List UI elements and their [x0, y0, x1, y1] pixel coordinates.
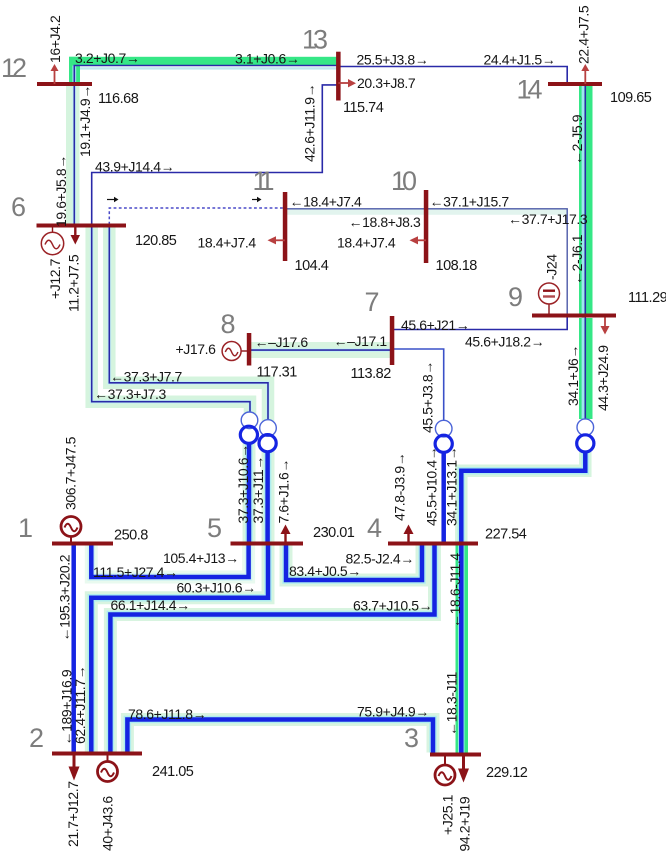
svg-text:←2-J6.1: ←2-J6.1 — [569, 234, 585, 285]
svg-text:18.4+J7.4: 18.4+J7.4 — [198, 235, 257, 251]
wire transformer path P1 bus6 side — [92, 226, 250, 413]
bus 11 bar — [283, 192, 288, 261]
svg-text:45.6+J18.2→: 45.6+J18.2→ — [465, 334, 544, 350]
flow arrow line 6-11 near bus 11 — [252, 197, 262, 202]
bus 7 bar — [390, 316, 395, 365]
wire band line 1-5 cyan — [91, 546, 248, 578]
wire line 13-14 — [338, 67, 567, 84]
svg-text:13: 13 — [302, 25, 327, 55]
svg-text:22.4+J7.5: 22.4+J7.5 — [576, 5, 592, 64]
load arrow bus 11 — [268, 236, 285, 244]
wire line 7-8 — [250, 348, 391, 352]
wire transformer T1 bus5 side — [245, 442, 253, 544]
svg-text:108.18: 108.18 — [436, 258, 478, 274]
load arrow bus 14 — [581, 64, 589, 84]
bus 2 bar — [52, 752, 142, 756]
bus 3 bar — [430, 753, 481, 757]
svg-text:306.7+J47.5: 306.7+J47.5 — [63, 436, 79, 510]
svg-text:78.6+J11.8→: 78.6+J11.8→ — [128, 706, 206, 722]
wire line 2-3 — [127, 720, 433, 753]
wire band line 6-12 mint — [66, 86, 80, 225]
transformer T4 (4-9) — [577, 419, 594, 452]
svg-text:18.4+J7.4: 18.4+J7.4 — [337, 235, 396, 251]
svg-text:3.2+J0.7→: 3.2+J0.7→ — [75, 50, 140, 66]
wire line 12-13 — [72, 66, 76, 85]
svg-text:47.8-J3.9→: 47.8-J3.9→ — [392, 453, 408, 521]
generator G8 at bus 8 (condenser) — [222, 342, 247, 361]
svg-text:62.4+J11.7→: 62.4+J11.7→ — [72, 666, 88, 744]
svg-text:120.85: 120.85 — [135, 233, 177, 249]
svg-text:227.54: 227.54 — [485, 527, 527, 543]
svg-text:←37.7+J17.3: ←37.7+J17.3 — [508, 211, 588, 227]
svg-text:19.1+J4.9→: 19.1+J4.9→ — [77, 85, 93, 157]
svg-text:241.05: 241.05 — [152, 764, 194, 780]
svg-text:104.4: 104.4 — [295, 258, 329, 274]
svg-text:+J17.6: +J17.6 — [176, 341, 217, 357]
wire band line 3-4 green — [456, 546, 469, 753]
transformer T2 (5-6 b) — [259, 420, 276, 452]
svg-text:+J25.1: +J25.1 — [440, 794, 456, 835]
wire band line 2-3 cyan — [127, 720, 433, 753]
svg-text:43.9+J14.4→: 43.9+J14.4→ — [95, 159, 174, 175]
generator G3 at bus 3 — [435, 757, 455, 786]
wire line 10-11 — [285, 208, 426, 210]
svg-text:16+J4.2: 16+J4.2 — [47, 15, 63, 63]
svg-text:44.3+J24.9: 44.3+J24.9 — [595, 345, 611, 411]
condenser C9 at bus 9 — [539, 283, 560, 314]
wire line 4-5 — [286, 546, 422, 581]
transformer T1 (5-6 a) — [240, 412, 258, 443]
svg-text:←–J17.1: ←–J17.1 — [334, 333, 388, 349]
svg-text:←–J17.6: ←–J17.6 — [255, 334, 309, 350]
svg-text:←37.3+J7.7: ←37.3+J7.7 — [110, 369, 182, 385]
svg-text:←18.6-J11.4: ←18.6-J11.4 — [447, 553, 463, 628]
svg-text:75.9+J4.9→: 75.9+J4.9→ — [357, 704, 429, 720]
wire band transformer path P1 5-6 mint — [92, 226, 250, 414]
load arrow bus 6 — [71, 228, 81, 245]
svg-text:63.7+J10.5→: 63.7+J10.5→ — [353, 598, 432, 614]
svg-text:111.29: 111.29 — [628, 290, 666, 306]
svg-text:109.65: 109.65 — [610, 90, 652, 106]
svg-text:117.31: 117.31 — [257, 365, 298, 381]
wire band line 12-13 green — [69, 57, 338, 84]
wire line 2-5 — [91, 546, 268, 752]
load arrow bus 2 — [69, 756, 80, 781]
wire band transformer T1 lower cyan — [243, 443, 256, 543]
wire line 1-5 — [91, 546, 248, 578]
svg-text:42.6+J11.9→: 42.6+J11.9→ — [302, 84, 318, 162]
svg-text:←37.1+J15.7: ←37.1+J15.7 — [430, 194, 510, 210]
svg-text:←37.3+J7.3: ←37.3+J7.3 — [94, 386, 166, 402]
bus 10 bar — [424, 190, 429, 263]
load arrow bus 12 — [51, 64, 59, 84]
svg-text:34.1+J6→: 34.1+J6→ — [565, 345, 581, 406]
svg-text:45.5+J3.8→: 45.5+J3.8→ — [420, 361, 436, 433]
wire line 2-4 — [110, 546, 434, 752]
bus 12 bar — [37, 82, 92, 86]
wire line 9-10 — [426, 209, 567, 314]
svg-text:24.4+J1.5→: 24.4+J1.5→ — [484, 52, 556, 68]
generator G6 at bus 6 (condenser) — [41, 228, 63, 255]
svg-text:60.3+J10.6→: 60.3+J10.6→ — [177, 580, 256, 596]
bus 6 bar — [37, 224, 127, 228]
svg-text:37.3+J10.6→: 37.3+J10.6→ — [235, 444, 251, 523]
wire band line 4-9 lower mint — [461, 452, 585, 544]
wire band line 4-9 upper green — [579, 318, 593, 419]
load arrow bus 4 — [404, 525, 414, 542]
wire band line 7-8 cyan — [250, 342, 391, 358]
wire line 6-11 dashed — [109, 208, 284, 225]
svg-text:3.1+J0.6→: 3.1+J0.6→ — [235, 51, 300, 67]
svg-text:45.5+J10.4→: 45.5+J10.4→ — [424, 447, 440, 526]
svg-text:7.6+J1.6→: 7.6+J1.6→ — [276, 459, 292, 524]
flow arrow line 6-11 near bus 6 — [107, 197, 119, 202]
wire band line 2-4 cyan — [110, 546, 434, 752]
svg-text:113.82: 113.82 — [351, 366, 392, 382]
wire line 4-9 upper segment — [582, 318, 585, 419]
wire band line 10-11 and 9-10 cyan — [285, 209, 567, 215]
svg-text:-J24: -J24 — [544, 254, 560, 280]
wire line 6-12 — [72, 85, 76, 225]
svg-text:19.6+J5.8→: 19.6+J5.8→ — [53, 155, 69, 227]
svg-text:45.6+J21→: 45.6+J21→ — [401, 317, 469, 333]
load arrow bus 13 — [338, 79, 356, 87]
wire band line 4-5 cyan — [286, 546, 422, 581]
svg-text:12: 12 — [1, 53, 26, 83]
wire transformer T2 bus5 side — [264, 450, 272, 544]
svg-text:21.7+J12.7: 21.7+J12.7 — [65, 781, 81, 847]
bus 14 bar — [548, 82, 602, 86]
svg-text:11.2+J7.5: 11.2+J7.5 — [66, 254, 82, 312]
svg-text:10: 10 — [391, 166, 416, 196]
wire line 4-7 upper segment — [394, 349, 444, 421]
wire line 3-4 — [458, 546, 465, 753]
wire band line 2-5 cyan — [91, 546, 268, 752]
bus 9 bar — [532, 314, 616, 318]
svg-text:250.8: 250.8 — [114, 528, 148, 544]
wire band transformer T2 lower cyan — [262, 451, 275, 543]
wire line 1-2 — [71, 546, 76, 752]
bus 13 bar — [336, 52, 341, 101]
generator G1 at bus 1 — [61, 517, 81, 542]
svg-text:66.1+J14.4→: 66.1+J14.4→ — [111, 597, 190, 613]
wire transformer path P2 bus6 side — [109, 226, 268, 420]
svg-text:115.74: 115.74 — [343, 100, 384, 116]
svg-text:+J12.7: +J12.7 — [47, 258, 63, 299]
svg-text:94.2+J19: 94.2+J19 — [457, 796, 473, 851]
load arrow bus 5 — [281, 525, 291, 542]
wire band line 9-14 green — [579, 86, 593, 314]
svg-text:←195.3+J20.2: ←195.3+J20.2 — [57, 554, 73, 641]
load arrow bus 3 — [458, 757, 469, 783]
svg-text:37.3+J11→: 37.3+J11→ — [250, 456, 266, 523]
svg-text:229.12: 229.12 — [486, 765, 528, 781]
wire transformer T3 bus4 side — [441, 451, 446, 544]
wire line 4-9 lower segment via T4 — [461, 452, 585, 544]
bus 4 bar — [388, 542, 478, 546]
svg-text:230.01: 230.01 — [313, 525, 355, 541]
svg-text:←18.8+J8.3: ←18.8+J8.3 — [349, 214, 421, 230]
svg-text:111.5+J27.4→: 111.5+J27.4→ — [93, 564, 178, 580]
load arrow bus 10 — [410, 236, 427, 244]
generator G2 at bus 2 — [98, 756, 118, 782]
wire band transformer path P2 5-6 mint — [109, 226, 268, 421]
bus 8 bar — [247, 333, 252, 366]
transformer T3 (4-7) — [435, 420, 452, 452]
svg-text:25.5+J3.8→: 25.5+J3.8→ — [357, 52, 429, 68]
svg-text:40+J43.6: 40+J43.6 — [100, 796, 116, 851]
load arrow bus 9 — [601, 318, 610, 335]
wire line 6-13 — [92, 85, 339, 225]
bus 1 bar — [52, 542, 113, 546]
wire line 7-9 — [394, 317, 567, 330]
svg-text:←2-J5.9: ←2-J5.9 — [569, 114, 585, 165]
svg-text:34.1+J13.1→: 34.1+J13.1→ — [444, 447, 460, 526]
wire line 9-14 — [582, 86, 585, 314]
svg-text:83.4+J0.5→: 83.4+J0.5→ — [289, 563, 361, 579]
svg-text:←18.4+J7.4: ←18.4+J7.4 — [290, 194, 362, 210]
svg-text:←18.3-J11: ←18.3-J11 — [444, 672, 460, 736]
svg-text:20.3+J8.7: 20.3+J8.7 — [357, 75, 416, 91]
svg-text:116.68: 116.68 — [98, 91, 139, 107]
bus 5 bar — [231, 542, 304, 546]
